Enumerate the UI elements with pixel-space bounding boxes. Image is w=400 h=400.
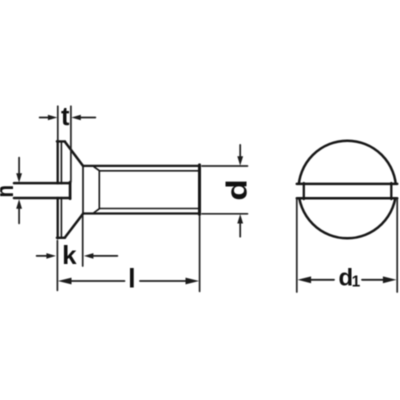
- dimension t left arrow: [40, 117, 49, 119]
- dimension l line left arrow: [70, 280, 125, 282]
- thread minor diameter bottom line: [99, 208, 199, 210]
- front slot top line: [297, 183, 397, 186]
- slot band white fill: [292, 185, 400, 197]
- svg-text:1: 1: [352, 274, 361, 291]
- dimension t right extension line: [70, 106, 72, 182]
- head bottom edge: [57, 237, 65, 239]
- dimension k right arrow: [93, 255, 118, 257]
- dimension d bottom arrow: [239, 223, 241, 237]
- front slot left cap: [303, 183, 305, 199]
- screw side view: head face line: [57, 141, 59, 239]
- thread minor diameter top line: [99, 170, 199, 172]
- svg-text:t: t: [61, 103, 70, 131]
- dimension n top arrow: [18, 158, 20, 175]
- thread chamfer top: [94, 167, 99, 171]
- slot bar white fill: [15, 184, 70, 197]
- slot bar bottom line: [14, 197, 70, 200]
- dimension t right arrow: [80, 117, 95, 119]
- thread chamfer bottom: [94, 209, 99, 213]
- cone-shank junction line: [82, 166, 84, 213]
- dimension t left extension line: [57, 106, 59, 140]
- countersunk cone top edge: [65, 142, 83, 167]
- front slot right cap: [390, 183, 392, 199]
- dimension d bottom extension line: [202, 213, 248, 215]
- dimension n bottom arrow: [18, 208, 20, 224]
- svg-text:k: k: [62, 240, 77, 270]
- dimension d1 left extension line: [296, 199, 298, 292]
- dimension d top extension line: [202, 165, 248, 167]
- head top edge: [57, 140, 65, 142]
- svg-text:n: n: [0, 185, 19, 198]
- dimension d1 line left arrow: [309, 279, 334, 281]
- head inner face line: [60, 142, 62, 238]
- dimension k left extension line: [56, 241, 58, 291]
- dimension d top arrow: [239, 145, 241, 158]
- countersunk cone bottom edge: [65, 214, 83, 238]
- dimension l line right arrow: [140, 280, 187, 282]
- shank top outer line: [83, 165, 200, 167]
- shank bottom outer line: [83, 212, 200, 214]
- slot bar end cap: [69, 182, 72, 199]
- slot bar top line: [14, 182, 70, 185]
- dimension k right extension line: [82, 216, 84, 266]
- head front view circle: [299, 141, 397, 239]
- svg-text:d: d: [221, 179, 253, 201]
- shank end line: [198, 165, 201, 215]
- svg-text:l: l: [128, 264, 136, 294]
- dimension k left arrow: [37, 255, 47, 257]
- dimension d1 right extension line: [396, 199, 398, 292]
- dimension d1 line right arrow: [362, 279, 385, 281]
- dimension l right extension line: [199, 217, 201, 292]
- thread start line: [98, 171, 100, 209]
- front slot bottom line: [297, 197, 397, 200]
